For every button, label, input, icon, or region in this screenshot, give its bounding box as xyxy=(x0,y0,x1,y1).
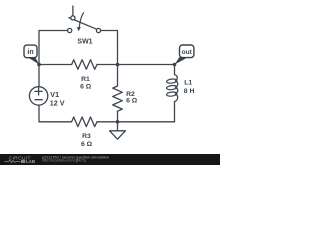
svg-text:L1: L1 xyxy=(184,79,192,86)
node B junction dot xyxy=(116,63,120,67)
wire top rail left xyxy=(39,31,68,65)
svg-text:R3: R3 xyxy=(82,133,91,140)
node out flag xyxy=(175,45,194,65)
wire bottom rail left xyxy=(39,121,72,123)
inductor L1 xyxy=(166,65,178,122)
resistor R1 xyxy=(72,60,97,70)
svg-text:6 Ω: 6 Ω xyxy=(81,141,93,148)
node A junction dot xyxy=(37,63,41,67)
svg-text:LAB: LAB xyxy=(26,159,35,164)
resistor R2 xyxy=(113,65,123,122)
watermark bar xyxy=(0,154,220,165)
svg-text:http://circuitlab.com/c/jjt4z7: http://circuitlab.com/c/jjt4z7q xyxy=(42,159,86,163)
ground xyxy=(110,122,126,139)
svg-text:8 H: 8 H xyxy=(184,88,195,95)
wire bottom rail right xyxy=(97,121,175,123)
switch SW1 xyxy=(68,6,101,33)
svg-text:12 V: 12 V xyxy=(50,99,65,108)
node in flag xyxy=(24,45,39,64)
svg-text:6 Ω: 6 Ω xyxy=(80,83,92,90)
node out junction dot xyxy=(173,63,177,67)
wire mid rail right xyxy=(97,64,175,66)
node gnd junction dot xyxy=(116,120,120,124)
svg-text:6 Ω: 6 Ω xyxy=(126,98,138,105)
svg-text:in: in xyxy=(27,49,33,56)
wire mid rail left xyxy=(39,64,72,66)
svg-text:out: out xyxy=(182,49,193,56)
wire switch to node B xyxy=(101,31,118,65)
voltage source V1 xyxy=(29,65,47,122)
svg-text:R1: R1 xyxy=(81,76,90,83)
resistor R3 xyxy=(72,117,97,127)
svg-text:SW1: SW1 xyxy=(77,38,92,45)
